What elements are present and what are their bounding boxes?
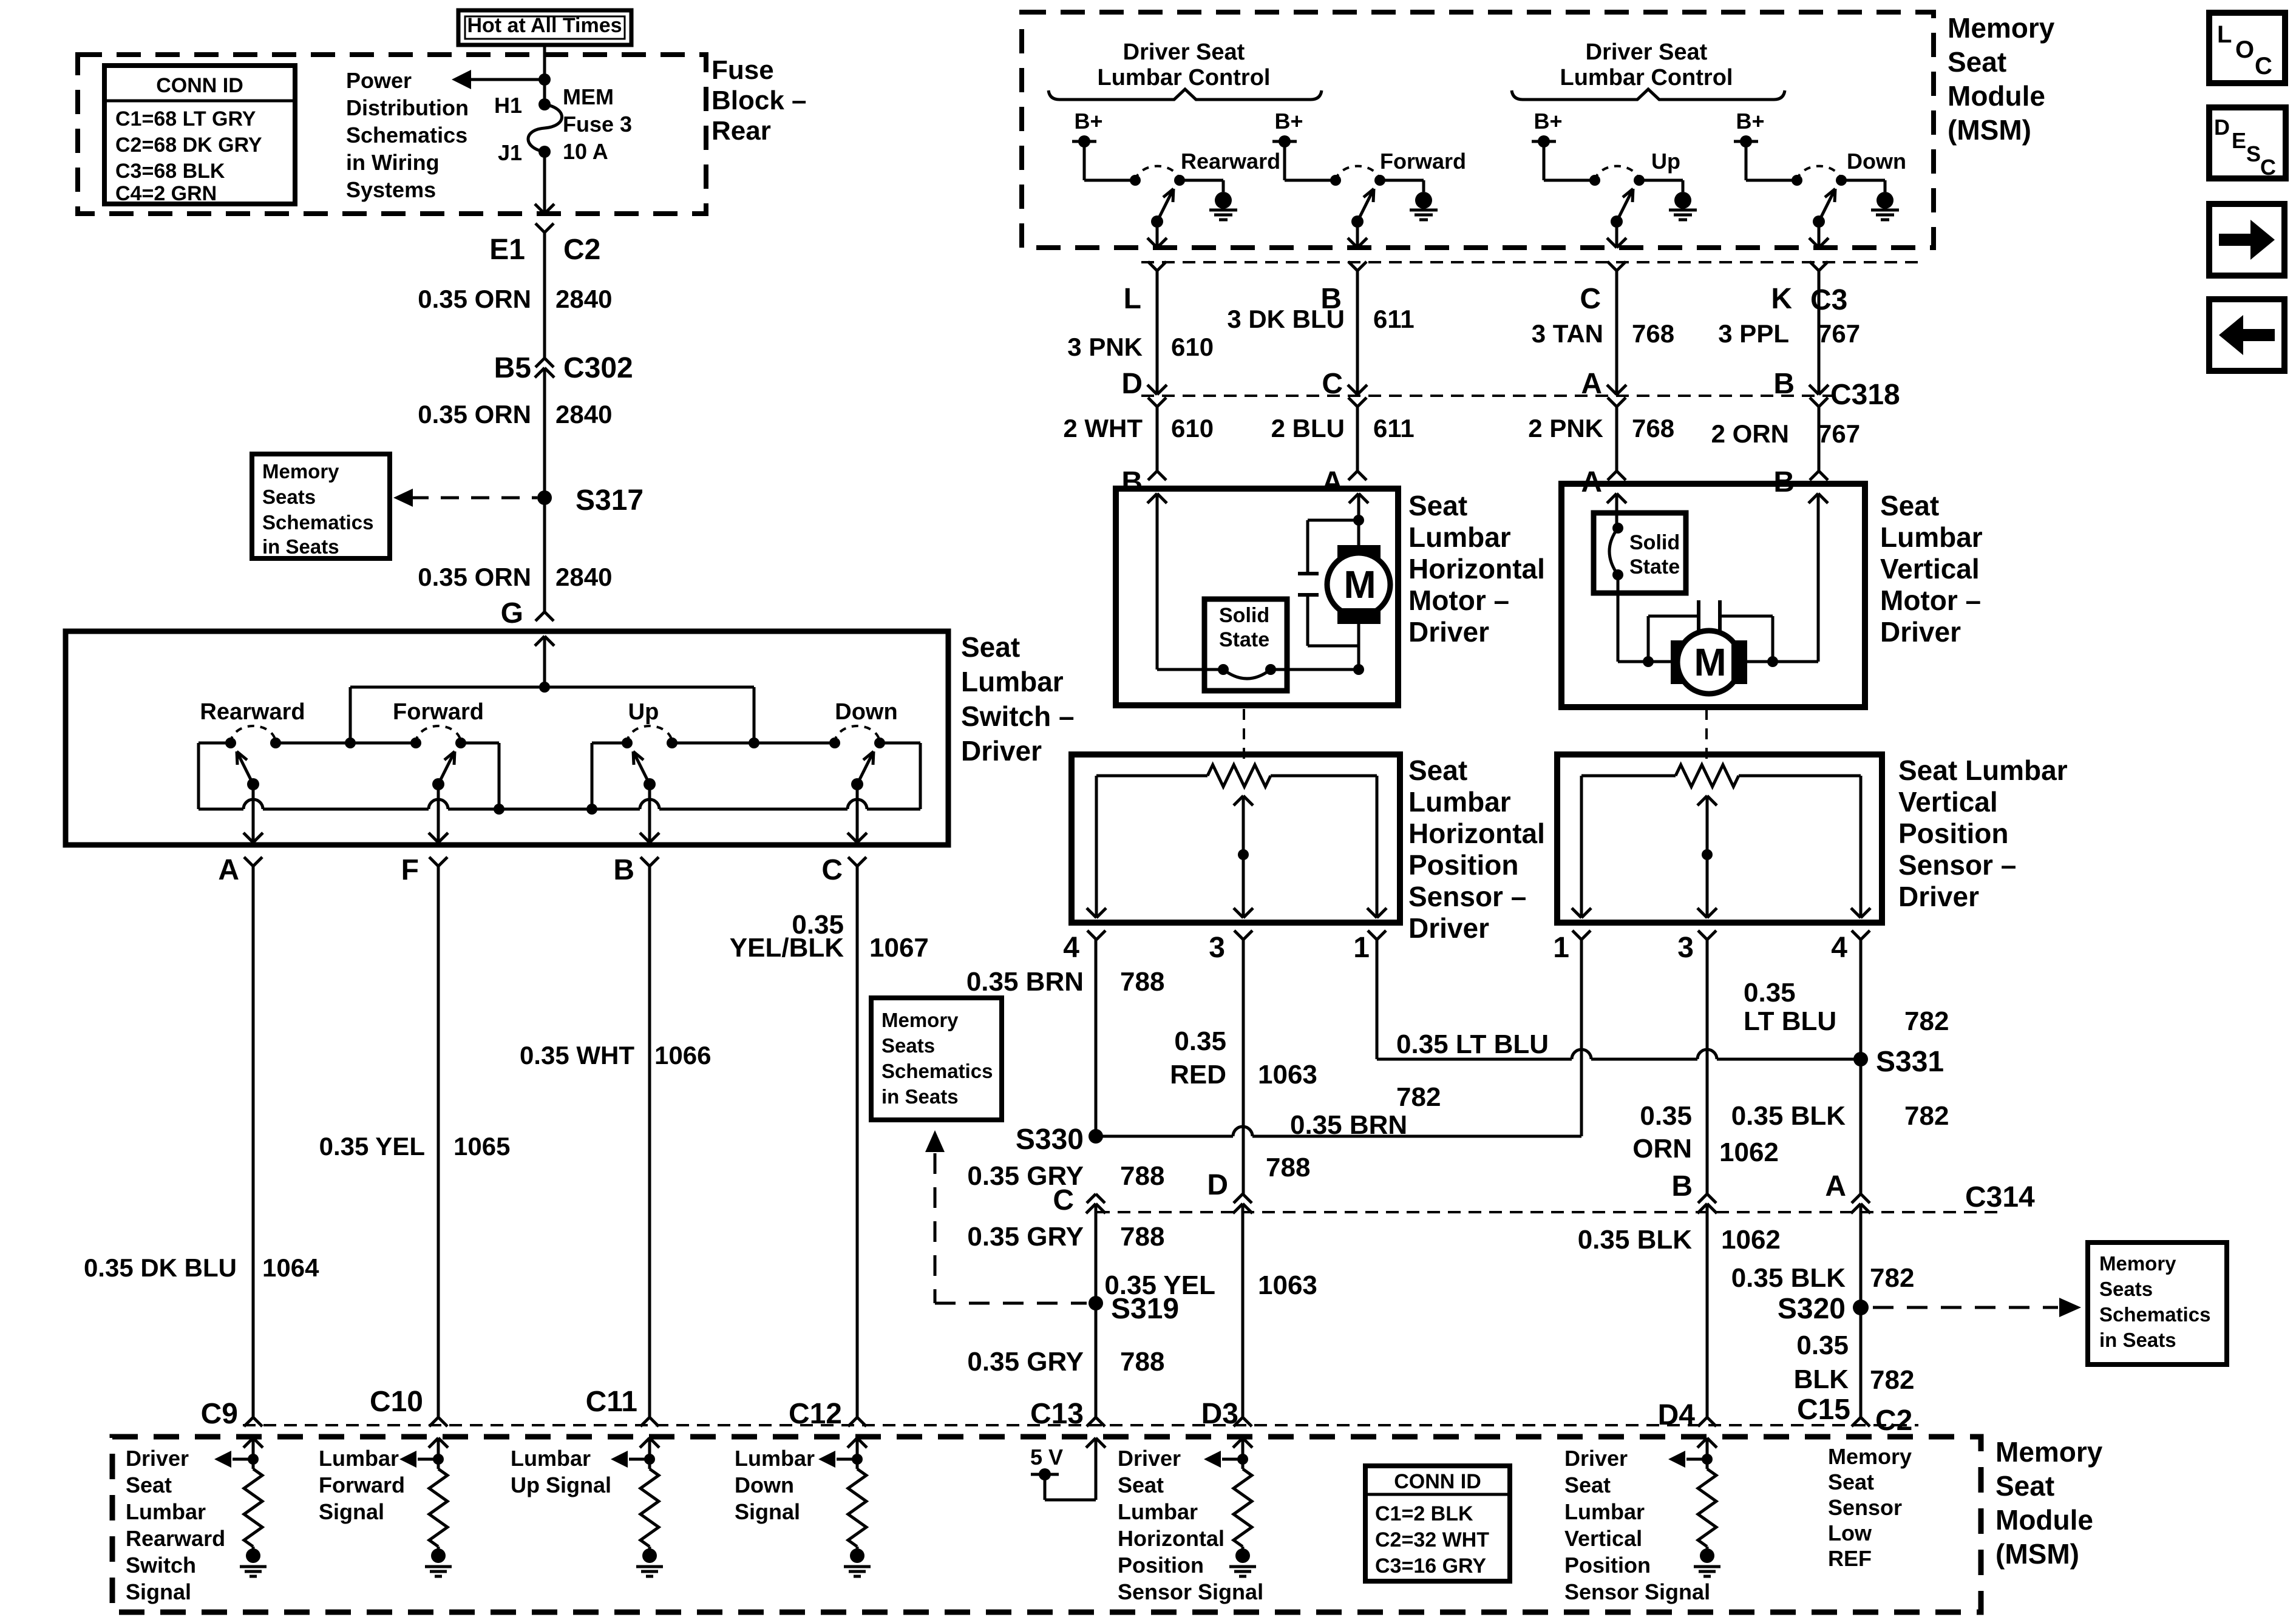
svg-text:Lumbar: Lumbar — [126, 1499, 206, 1524]
svg-text:Lumbar: Lumbar — [1564, 1499, 1645, 1524]
wire down right contact to rail — [879, 742, 920, 745]
svg-text:Lumbar Control: Lumbar Control — [1560, 65, 1733, 90]
svg-text:B: B — [1773, 368, 1795, 400]
svg-text:2 ORN: 2 ORN — [1711, 419, 1789, 448]
connector C9 female — [244, 1417, 253, 1426]
svg-text:768: 768 — [1632, 319, 1674, 348]
svg-text:Motor –: Motor – — [1880, 585, 1981, 616]
svg-text:C2=32 WHT: C2=32 WHT — [1375, 1528, 1489, 1551]
svg-text:4: 4 — [1063, 932, 1079, 964]
svg-text:C302: C302 — [563, 352, 633, 384]
wire blu 611 — [1356, 407, 1359, 471]
wire vmotor feed left — [1607, 493, 1617, 503]
svg-text:0.35: 0.35 — [1174, 1026, 1226, 1056]
wire tan 768 — [1615, 271, 1618, 395]
svg-text:2840: 2840 — [555, 400, 612, 429]
connector line C1 C2 bottom — [243, 1424, 1918, 1426]
connector C314 pin D — [1234, 1194, 1243, 1203]
wire blk 782 below S331 — [1860, 1059, 1863, 1194]
svg-text:611: 611 — [1373, 305, 1415, 333]
svg-text:1067: 1067 — [869, 933, 929, 963]
connector C314 pin C — [1087, 1194, 1096, 1203]
connector pin 4 vsensor — [1852, 931, 1861, 940]
svg-text:Memory: Memory — [1828, 1444, 1912, 1469]
svg-text:Driver Seat: Driver Seat — [1123, 39, 1245, 65]
connector pin 3 hsensor — [1234, 931, 1243, 940]
svg-text:O: O — [2235, 36, 2254, 63]
wire wht 1066 — [648, 866, 651, 1417]
svg-text:0.35 WHT: 0.35 WHT — [520, 1041, 634, 1070]
svg-text:C: C — [2260, 155, 2276, 180]
svg-text:3 TAN: 3 TAN — [1532, 319, 1603, 348]
svg-text:L: L — [1124, 283, 1141, 315]
brace right — [1512, 89, 1785, 100]
svg-text:Seats: Seats — [262, 486, 316, 508]
svg-text:Schematics: Schematics — [262, 511, 373, 534]
switch arm Up — [1611, 215, 1623, 228]
svg-text:Memory: Memory — [1948, 12, 2055, 44]
svg-text:(MSM): (MSM) — [1995, 1538, 2079, 1570]
svg-text:782: 782 — [1396, 1082, 1441, 1112]
wire Forward pin out — [1356, 222, 1359, 248]
svg-text:Vertical: Vertical — [1880, 553, 1980, 585]
svg-text:C314: C314 — [1965, 1181, 2035, 1213]
svg-text:0.35 BLK: 0.35 BLK — [1578, 1225, 1693, 1255]
wire yel 1065 — [437, 866, 440, 1417]
icon box arrow right — [2209, 204, 2284, 276]
icon box arrow left — [2209, 299, 2284, 371]
connector pin K C3 — [1810, 262, 1819, 271]
svg-text:3 PPL: 3 PPL — [1718, 319, 1789, 348]
svg-text:788: 788 — [1120, 1161, 1164, 1191]
svg-text:K: K — [1771, 283, 1792, 315]
icon box DESC — [2209, 107, 2286, 178]
wire fuse to connector C2 — [543, 152, 546, 214]
svg-text:Motor –: Motor – — [1408, 585, 1509, 616]
box Memory Seats Schematics in Seats ref1 — [252, 454, 390, 558]
svg-text:610: 610 — [1171, 333, 1214, 361]
svg-text:782: 782 — [1904, 1006, 1949, 1036]
svg-text:S320: S320 — [1778, 1293, 1846, 1325]
connector pin A switch — [244, 857, 253, 866]
wire blk 1062 below B — [1706, 1213, 1709, 1417]
svg-text:C10: C10 — [370, 1386, 423, 1418]
wire orange 2840 upper — [543, 232, 546, 358]
svg-text:0.35 ORN: 0.35 ORN — [418, 400, 531, 429]
svg-text:F: F — [401, 854, 419, 886]
fuse F1 MEM Fuse 3 10A — [538, 98, 551, 110]
mech link vertical motor to sensor — [1705, 709, 1708, 766]
wire yel/blk 1067 — [856, 866, 859, 1417]
svg-text:J1: J1 — [498, 140, 522, 165]
connector C2 female — [1852, 1417, 1861, 1426]
svg-text:4: 4 — [1831, 932, 1847, 964]
msm input lumbar up signal — [640, 1438, 650, 1448]
CONN ID box msm — [1365, 1466, 1510, 1581]
connector pin C switch — [848, 857, 857, 866]
capacitor motor horizontal — [1308, 519, 1359, 522]
svg-text:S: S — [2246, 141, 2261, 166]
connector vmotor a pin — [1608, 471, 1617, 480]
svg-text:B: B — [1671, 1170, 1693, 1202]
svg-text:5 V: 5 V — [1030, 1445, 1063, 1470]
wire red 1063 — [1242, 940, 1245, 1194]
svg-text:D: D — [1207, 1169, 1228, 1201]
connector motor a pin — [1348, 471, 1357, 480]
svg-text:Up: Up — [1651, 149, 1680, 174]
svg-text:Driver: Driver — [1408, 616, 1489, 648]
wire gry 788 below C — [1095, 1213, 1098, 1417]
svg-text:Horizontal: Horizontal — [1408, 818, 1545, 849]
solid state switch vertical — [1594, 513, 1686, 593]
svg-text:Rear: Rear — [712, 116, 771, 146]
svg-text:1063: 1063 — [1258, 1060, 1317, 1090]
svg-text:Sensor –: Sensor – — [1898, 849, 2016, 881]
msm input lumbar forward signal — [429, 1438, 438, 1448]
svg-text:Up Signal: Up Signal — [511, 1473, 611, 1497]
svg-text:0.35: 0.35 — [1744, 978, 1796, 1008]
motor M horizontal — [1349, 493, 1359, 503]
node feed right — [749, 737, 759, 748]
svg-text:2 BLU: 2 BLU — [1271, 414, 1345, 442]
svg-text:Lumbar: Lumbar — [1408, 521, 1511, 553]
mech link horizontal motor to sensor — [1243, 709, 1245, 766]
svg-text:2 WHT: 2 WHT — [1063, 414, 1143, 442]
connector pin F switch — [429, 857, 438, 866]
svg-text:(MSM): (MSM) — [1948, 114, 2031, 146]
memory seat module bottom box — [112, 1437, 1981, 1612]
svg-text:Driver: Driver — [126, 1446, 189, 1471]
svg-text:in Seats: in Seats — [2099, 1329, 2176, 1351]
potentiometer horizontal sensor — [1096, 775, 1207, 778]
svg-text:Horizontal: Horizontal — [1408, 553, 1545, 585]
svg-text:C318: C318 — [1830, 379, 1900, 411]
svg-text:Solid: Solid — [1629, 531, 1680, 554]
svg-text:L: L — [2217, 21, 2232, 48]
svg-text:Schematics: Schematics — [881, 1060, 993, 1082]
svg-text:Rearward: Rearward — [1181, 149, 1280, 174]
svg-text:767: 767 — [1818, 319, 1860, 348]
svg-text:0.35 BRN: 0.35 BRN — [1290, 1110, 1407, 1140]
svg-text:C2: C2 — [1875, 1405, 1912, 1437]
svg-text:0.35 GRY: 0.35 GRY — [967, 1161, 1084, 1191]
splice S317 — [537, 490, 552, 505]
svg-text:0.35 BLK: 0.35 BLK — [1731, 1101, 1846, 1131]
svg-text:Seat: Seat — [1995, 1470, 2054, 1502]
svg-text:Down: Down — [1847, 149, 1906, 174]
svg-text:Down: Down — [735, 1473, 794, 1497]
potentiometer vertical sensor — [1581, 775, 1676, 778]
feed arrow into switch box — [535, 636, 545, 646]
svg-text:B5: B5 — [494, 352, 531, 384]
svg-text:Lumbar: Lumbar — [319, 1446, 399, 1471]
svg-text:C2: C2 — [563, 234, 600, 266]
ground Rearward switch — [1215, 192, 1232, 209]
wire pnk 768 — [1615, 407, 1618, 471]
connector pin 1 vsensor — [1572, 931, 1581, 940]
wire hot feed — [543, 45, 546, 104]
svg-text:State: State — [1219, 628, 1269, 651]
switch arm Rearward — [1151, 215, 1163, 228]
svg-text:Position: Position — [1408, 849, 1518, 881]
svg-text:Fuse: Fuse — [712, 55, 774, 85]
connector pin B C3 — [1348, 262, 1357, 271]
svg-text:B: B — [613, 854, 634, 886]
svg-text:Vertical: Vertical — [1898, 786, 1998, 818]
svg-text:1065: 1065 — [453, 1132, 510, 1161]
dashed link S317 to seats schematics — [410, 497, 537, 500]
wire forward right contact to rail — [460, 742, 499, 745]
connector D3 female — [1234, 1417, 1243, 1426]
wire vmotor right brush — [1747, 660, 1818, 663]
svg-text:M: M — [1343, 563, 1376, 606]
msm input vertical position sensor signal — [1697, 1438, 1707, 1448]
svg-text:Schematics: Schematics — [2099, 1303, 2210, 1326]
svg-text:Distribution: Distribution — [346, 95, 469, 120]
connector G of lumbar switch — [535, 612, 545, 621]
connector line C3 — [1141, 261, 1918, 263]
splice S320 — [1853, 1300, 1869, 1315]
wire wht 610 — [1156, 407, 1159, 471]
ground Down switch — [1877, 192, 1894, 209]
wire dk blu 1064 — [252, 866, 255, 1417]
svg-text:B+: B+ — [1736, 109, 1764, 134]
svg-text:1: 1 — [1353, 932, 1370, 964]
svg-text:Rearward: Rearward — [126, 1526, 225, 1551]
wire dk blu 611 — [1356, 271, 1359, 395]
svg-text:3: 3 — [1209, 932, 1225, 964]
ground Forward switch — [1415, 192, 1432, 209]
svg-text:Switch: Switch — [126, 1553, 196, 1578]
node vmotor left — [1643, 656, 1654, 667]
svg-text:Lumbar: Lumbar — [1408, 786, 1511, 818]
wire orn 767 — [1818, 407, 1821, 471]
svg-text:MEM: MEM — [563, 84, 614, 109]
brace left — [1048, 89, 1322, 100]
svg-text:Memory: Memory — [881, 1009, 959, 1031]
svg-text:Down: Down — [835, 699, 897, 725]
svg-text:CONN ID: CONN ID — [156, 74, 243, 97]
box Seat Lumbar Vertical Motor - Driver — [1561, 484, 1865, 707]
svg-text:0.35 GRY: 0.35 GRY — [967, 1347, 1084, 1377]
connector C13 female — [1087, 1417, 1096, 1426]
svg-text:D4: D4 — [1658, 1399, 1696, 1431]
svg-text:S331: S331 — [1876, 1046, 1944, 1078]
svg-text:C15: C15 — [1797, 1394, 1850, 1426]
box Seat Lumbar Switch - Driver — [66, 631, 948, 845]
svg-text:S317: S317 — [576, 484, 644, 517]
connector pin 3 vsensor — [1698, 931, 1707, 940]
dashed link S320 to seats schematics — [1873, 1306, 2058, 1309]
node power tap — [538, 73, 551, 86]
svg-text:B+: B+ — [1274, 109, 1303, 134]
svg-text:CONN ID: CONN ID — [1394, 1470, 1481, 1493]
svg-text:A: A — [1322, 466, 1343, 498]
solid state switch horizontal — [1204, 599, 1287, 691]
svg-text:10 A: 10 A — [563, 139, 608, 164]
wire up left contact to rail — [592, 742, 627, 745]
svg-text:LT BLU: LT BLU — [1744, 1006, 1836, 1036]
wire orange 2840 middle — [543, 378, 546, 498]
wire lt blu 782 vsensor pin4 — [1860, 940, 1863, 1059]
box Seat Lumbar Horizontal Motor - Driver — [1116, 489, 1398, 705]
svg-text:Sensor Signal: Sensor Signal — [1118, 1579, 1263, 1604]
msm input rearward switch signal — [243, 1438, 253, 1448]
connector line C318 — [1141, 395, 1833, 397]
connector motor b pin — [1148, 471, 1157, 480]
svg-text:0.35 YEL: 0.35 YEL — [319, 1132, 425, 1161]
svg-text:Seat: Seat — [1118, 1473, 1164, 1497]
svg-text:Lumbar: Lumbar — [735, 1446, 815, 1471]
svg-text:767: 767 — [1818, 419, 1860, 448]
svg-text:0.35 ORN: 0.35 ORN — [418, 285, 531, 313]
svg-text:Driver: Driver — [1564, 1446, 1628, 1471]
svg-text:Forward: Forward — [319, 1473, 405, 1497]
svg-text:C9: C9 — [201, 1398, 238, 1430]
svg-text:in Wiring: in Wiring — [346, 150, 440, 175]
svg-text:Signal: Signal — [319, 1499, 384, 1524]
svg-text:E1: E1 — [489, 234, 525, 266]
svg-text:782: 782 — [1870, 1263, 1914, 1293]
svg-text:E: E — [2232, 128, 2246, 153]
svg-text:Hot at All Times: Hot at All Times — [467, 14, 622, 37]
svg-text:Block –: Block – — [712, 86, 807, 115]
switch arm Forward — [1351, 215, 1364, 228]
svg-text:3: 3 — [1677, 932, 1694, 964]
svg-text:Position: Position — [1898, 818, 2008, 849]
connector C11 female — [640, 1417, 650, 1426]
svg-text:610: 610 — [1171, 414, 1214, 442]
msm input lumbar down signal — [847, 1438, 857, 1448]
svg-text:C12: C12 — [789, 1398, 842, 1430]
memory seat module top box — [1022, 12, 1934, 248]
svg-text:788: 788 — [1266, 1153, 1310, 1182]
svg-text:C: C — [1580, 283, 1601, 315]
svg-text:0.35 BLK: 0.35 BLK — [1731, 1263, 1846, 1293]
svg-text:3 DK BLU: 3 DK BLU — [1227, 305, 1345, 333]
svg-text:B+: B+ — [1533, 109, 1562, 134]
svg-text:C1=68 LT GRY: C1=68 LT GRY — [115, 107, 256, 131]
wire Up pin out — [1615, 222, 1618, 248]
svg-text:Lumbar: Lumbar — [961, 666, 1064, 697]
svg-text:0.35 GRY: 0.35 GRY — [967, 1222, 1084, 1252]
svg-text:C: C — [821, 854, 843, 886]
svg-text:Lumbar: Lumbar — [511, 1446, 591, 1471]
svg-text:Signal: Signal — [735, 1499, 800, 1524]
svg-text:Lumbar: Lumbar — [1880, 521, 1983, 553]
svg-text:Sensor: Sensor — [1828, 1495, 1902, 1520]
wire pnk 610 — [1156, 271, 1159, 395]
svg-text:0.35: 0.35 — [1640, 1101, 1692, 1131]
wire lt blu 782 hsensor pin1 — [1376, 940, 1379, 1059]
connector vmotor b pin — [1810, 471, 1819, 480]
fuse block dashed box — [78, 55, 706, 214]
svg-text:Systems: Systems — [346, 177, 436, 202]
svg-text:B: B — [1121, 466, 1143, 498]
svg-text:3 PNK: 3 PNK — [1067, 333, 1143, 361]
svg-text:G: G — [501, 597, 523, 629]
svg-text:Driver: Driver — [1880, 616, 1961, 648]
svg-text:B+: B+ — [1074, 109, 1102, 134]
svg-text:Schematics: Schematics — [346, 123, 467, 147]
splice S331 — [1853, 1052, 1868, 1066]
box Memory Seats Schematics in Seats ref3 — [2088, 1242, 2227, 1364]
svg-text:Fuse 3: Fuse 3 — [563, 112, 632, 137]
connector C318 pin C — [1348, 385, 1357, 395]
svg-text:REF: REF — [1828, 1546, 1872, 1571]
connector C318 pin D — [1147, 385, 1157, 395]
wiper horizontal sensor — [1234, 796, 1243, 805]
wire rearward left contact to rail — [199, 742, 231, 745]
box Hot at All Times — [458, 10, 631, 45]
svg-text:Seat: Seat — [126, 1473, 172, 1497]
switch arm Down — [1813, 215, 1825, 228]
connector pin 4 hsensor — [1087, 931, 1096, 940]
wire orn 1062 vsensor pin3 — [1706, 940, 1709, 1194]
svg-text:A: A — [1825, 1170, 1846, 1202]
svg-text:2 PNK: 2 PNK — [1528, 414, 1603, 442]
svg-text:Module: Module — [1995, 1504, 2093, 1536]
svg-text:Memory: Memory — [2099, 1252, 2176, 1275]
svg-text:782: 782 — [1904, 1101, 1949, 1131]
svg-text:Horizontal: Horizontal — [1118, 1526, 1224, 1551]
connector line C314 — [1097, 1211, 1997, 1213]
svg-text:Seats: Seats — [881, 1034, 935, 1057]
connector E1 C2 — [535, 223, 545, 232]
svg-text:State: State — [1629, 555, 1680, 578]
dashed link S319 to seats schematics — [935, 1302, 1087, 1305]
wire yel 1063 below D — [1241, 1213, 1245, 1417]
svg-text:C3=16 GRY: C3=16 GRY — [1375, 1554, 1486, 1578]
connector C318 pin B — [1809, 385, 1819, 395]
node switch feed junction — [539, 682, 550, 693]
svg-text:0.35 YEL: 0.35 YEL — [1104, 1270, 1215, 1300]
node feed left — [345, 737, 356, 748]
wire S330 to vertical sensor pin1 brn 788 — [1096, 1135, 1233, 1138]
svg-text:Lumbar: Lumbar — [1118, 1499, 1198, 1524]
svg-text:0.35: 0.35 — [1796, 1331, 1849, 1360]
svg-text:Rearward: Rearward — [200, 699, 305, 725]
svg-text:Seats: Seats — [2099, 1278, 2153, 1300]
connector pin B switch — [640, 857, 650, 866]
node motor lower — [1353, 664, 1364, 675]
arrow to power distribution — [467, 78, 540, 81]
connector C12 female — [848, 1417, 857, 1426]
svg-text:1064: 1064 — [262, 1253, 319, 1282]
connector C10 female — [429, 1417, 438, 1426]
svg-text:788: 788 — [1120, 1347, 1164, 1377]
svg-text:Switch –: Switch – — [961, 700, 1075, 732]
svg-text:C4=2 GRN: C4=2 GRN — [115, 182, 217, 205]
svg-text:A: A — [1581, 368, 1602, 400]
svg-text:Driver: Driver — [961, 735, 1042, 767]
svg-text:Driver Seat: Driver Seat — [1586, 39, 1708, 65]
svg-text:C: C — [2255, 53, 2272, 80]
wire feed bus — [350, 686, 754, 689]
node wiper horizontal — [1238, 849, 1249, 860]
svg-text:Seat Lumbar: Seat Lumbar — [1898, 754, 2068, 786]
svg-text:0.35 ORN: 0.35 ORN — [418, 563, 531, 591]
box Seat Lumbar Horizontal Position Sensor - Driver — [1072, 754, 1400, 923]
connector D4 female — [1698, 1417, 1707, 1426]
svg-text:Position: Position — [1118, 1553, 1204, 1578]
svg-text:Low: Low — [1828, 1520, 1872, 1545]
svg-text:S330: S330 — [1016, 1124, 1084, 1156]
svg-text:C2=68 DK GRY: C2=68 DK GRY — [115, 134, 262, 157]
motor M vertical — [1671, 640, 1686, 684]
connector pin C C3 — [1608, 262, 1617, 271]
svg-text:C3: C3 — [1810, 284, 1847, 316]
